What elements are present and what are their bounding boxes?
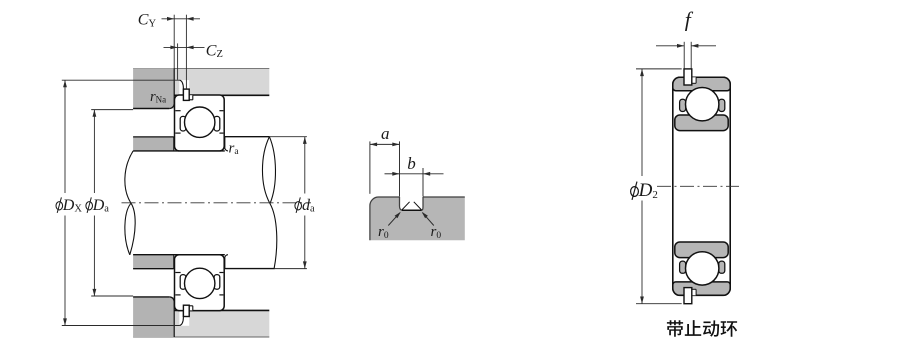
snap ring tab bottom right figure	[684, 288, 696, 304]
shaft shoulder face right	[225, 137, 228, 269]
outer ring band top (gray)	[673, 77, 730, 90]
housing lower section (light gray)	[133, 311, 269, 338]
shaft spacer upper (dark gray)	[133, 137, 174, 151]
shaft right section bottom edge	[225, 268, 275, 270]
dimension phida	[270, 137, 315, 269]
ball top right figure	[686, 88, 719, 121]
housing groove contour lower	[180, 310, 184, 325]
shaft seat surface upper	[133, 150, 225, 152]
dimension phiDa	[86, 110, 133, 297]
label r0 right with leader	[422, 212, 442, 241]
housing shoulder / cover upper (dark gray)	[133, 69, 174, 109]
cage pockets bottom right figure	[680, 261, 725, 273]
center axis left figure	[122, 202, 312, 204]
bearing upper cross-section	[175, 95, 225, 151]
dimension phiD2	[631, 69, 682, 304]
dimension b	[385, 154, 444, 196]
label rNa	[150, 89, 166, 105]
housing upper section (light gray)	[133, 69, 269, 96]
shaft spacer lower (dark gray)	[133, 255, 174, 269]
caption 'with locating snap ring' (CJK)	[667, 320, 737, 337]
groove detail block	[370, 197, 465, 240]
housing bore line lower	[174, 309, 269, 311]
snap ring groove notch upper	[189, 95, 193, 100]
ball bottom right figure	[686, 252, 719, 285]
cage pockets top right figure	[680, 99, 725, 111]
snap ring tab upper	[183, 89, 189, 100]
shaft seat surface lower	[133, 254, 225, 256]
housing groove contour upper	[180, 80, 184, 95]
snap ring tab top right figure	[684, 69, 696, 85]
dimension phiDx	[56, 80, 180, 326]
shaft break line left	[125, 151, 135, 255]
inner ring band top (gray)	[675, 115, 728, 131]
center axis right figure	[657, 185, 739, 187]
housing bore line upper	[174, 94, 269, 96]
bearing outline right figure	[673, 77, 730, 295]
housing face and fillet rNa lower	[133, 297, 174, 337]
inner ring band bottom (gray)	[675, 242, 728, 258]
label ra	[229, 141, 240, 158]
svg-text:a: a	[381, 124, 390, 143]
dimension a	[370, 124, 400, 197]
svg-text:b: b	[407, 154, 416, 173]
label r0 left with leader	[378, 212, 401, 241]
shaft break line right	[262, 137, 276, 269]
shaft right section top edge	[225, 136, 270, 138]
bearing lower cross-section	[175, 255, 225, 311]
housing face and fillet rNa upper	[133, 69, 174, 109]
dimension CZ	[164, 42, 223, 79]
outer ring band bottom (gray)	[673, 282, 730, 295]
dimension CY	[138, 12, 200, 89]
housing shoulder / cover lower (dark gray)	[133, 297, 174, 337]
snap ring groove notch lower	[189, 306, 193, 311]
snap ring tab lower	[183, 305, 189, 316]
dimension f	[656, 7, 716, 68]
